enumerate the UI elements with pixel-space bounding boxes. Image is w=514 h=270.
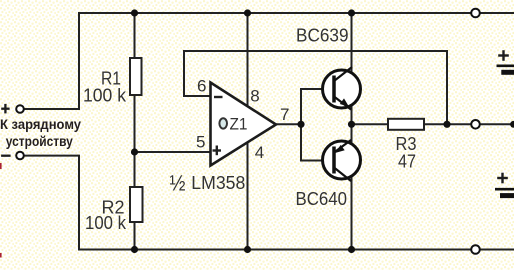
wire bases vertical: [300, 89, 302, 161]
resistor R2: [130, 187, 143, 222]
label 1/2 LM358: [170, 171, 246, 196]
terminal middle right: [471, 120, 480, 129]
label К зарядному устройству: [0, 116, 81, 149]
wire base Q1: [301, 88, 324, 90]
battery GB2: [495, 173, 514, 196]
junction bottom rail / R2: [131, 246, 138, 253]
wire Q1 emitter down to node: [351, 105, 353, 124]
battery GB1: [497, 50, 514, 72]
wire pin 6 to feedback: [184, 51, 209, 96]
terminal bottom right: [471, 245, 480, 254]
svg-text:100 k: 100 k: [83, 86, 127, 106]
svg-text:½: ½: [170, 171, 186, 196]
svg-text:6: 6: [197, 77, 206, 96]
wire R2 to bottom rail: [134, 222, 136, 250]
wire from + terminal up to top rail: [25, 13, 80, 109]
terminal - input: [16, 152, 24, 160]
wire Q2 collector to bottom rail: [351, 177, 353, 250]
resistor R3: [388, 119, 424, 130]
junction feedback / R3 right: [443, 121, 450, 128]
junction top rail / Q1 collector: [348, 9, 355, 16]
transistor Q1 BC639: [323, 67, 361, 110]
terminal top right: [471, 9, 480, 18]
wire from - terminal down to bottom rail: [25, 156, 80, 250]
wire pin 8 to top rail: [247, 13, 249, 107]
wire top rail to R1: [134, 13, 136, 58]
junction divider / pin 5: [131, 148, 138, 155]
label - at input terminal: [1, 155, 11, 157]
wire R1 to R2: [134, 95, 136, 187]
wire R3 to right edge: [424, 123, 514, 125]
svg-text:5: 5: [196, 133, 205, 152]
label + at input terminal: [1, 104, 9, 114]
wire top rail: [79, 12, 514, 14]
junction emitters / R3: [348, 121, 355, 128]
wire base Q2: [301, 160, 324, 162]
junction bottom rail / Q2 collector: [348, 246, 355, 253]
transistor Q2 BC640: [323, 140, 361, 181]
svg-text:4: 4: [255, 143, 264, 162]
wire Q2 emitter up to node: [351, 124, 353, 143]
wire pin 4 to bottom rail: [247, 141, 249, 250]
junction top rail / R1: [131, 9, 138, 16]
svg-text:устройству: устройству: [6, 133, 73, 149]
svg-text:BC639: BC639: [296, 26, 349, 46]
svg-text:7: 7: [280, 105, 289, 124]
op-amp OZ1: [211, 83, 277, 166]
svg-text:47: 47: [398, 152, 416, 172]
junction output node: [297, 121, 304, 128]
op-amp inverting input mark: [214, 96, 223, 98]
wire pin 7 output: [276, 123, 301, 125]
wire feedback top run: [184, 50, 447, 52]
wire divider junction to pin 5: [135, 151, 210, 153]
svg-text:100 k: 100 k: [85, 213, 127, 233]
svg-text:К зарядному: К зарядному: [0, 116, 81, 132]
svg-text:LM358: LM358: [191, 173, 245, 193]
junction bottom rail / pin 4: [244, 246, 251, 253]
wire Q1 collector to top rail: [351, 13, 353, 72]
resistor R1: [130, 58, 142, 95]
junction right edge of middle rail: [510, 121, 514, 128]
svg-text:BC640: BC640: [296, 189, 348, 209]
junction top rail / pin 8: [244, 9, 251, 16]
label OZ1: [219, 115, 247, 134]
op-amp non-inverting input mark: [213, 146, 222, 156]
wire bottom rail: [79, 249, 514, 251]
terminal + input: [16, 105, 24, 113]
svg-text:8: 8: [250, 87, 259, 106]
svg-text:Z1: Z1: [230, 115, 248, 134]
wire emitter node to R3: [352, 123, 389, 125]
wire feedback down to output node: [446, 51, 448, 124]
